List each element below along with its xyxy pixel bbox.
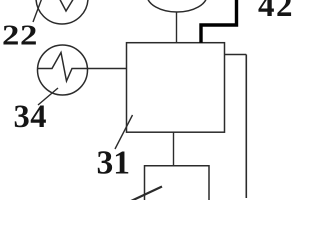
leader line 22 — [33, 0, 42, 22]
gauge circle 22 — [36, 0, 88, 24]
lower unit box — [145, 166, 210, 202]
right vertical pipe — [245, 55, 247, 199]
wire vessel 31 bottom to lower unit — [173, 132, 175, 166]
svg-text:42: 42 — [258, 0, 294, 24]
leader line 31 — [115, 115, 133, 149]
heat exchanger 34 — [38, 45, 88, 95]
wire vessel 31 right to down pipe — [225, 54, 247, 56]
leader line inside lower unit — [130, 187, 162, 202]
V mark inside gauge 22 — [57, 0, 78, 11]
vessel 31 — [127, 43, 225, 133]
zigzag of heat exchanger 34 — [38, 53, 88, 82]
drum ellipse (top) — [147, 0, 207, 12]
wire heat exchanger to vessel 31 — [88, 68, 127, 70]
svg-text:22: 22 — [2, 19, 38, 50]
svg-text:31: 31 — [97, 145, 131, 182]
leader line 34 — [38, 88, 58, 105]
svg-text:34: 34 — [14, 99, 48, 135]
wire drum to vessel 31 — [176, 12, 178, 43]
thick duct 42 — [201, 0, 237, 43]
